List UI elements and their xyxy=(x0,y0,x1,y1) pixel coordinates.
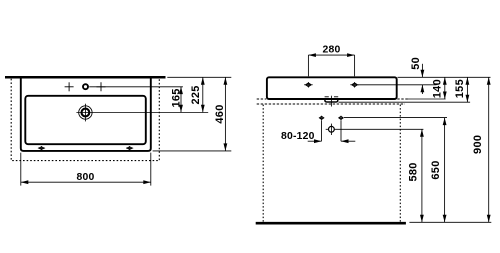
extension line basin bottom right xyxy=(406,98,445,100)
extension line basin front xyxy=(153,150,232,152)
extension line wall level xyxy=(167,76,231,78)
counter top hidden edge left xyxy=(257,98,267,100)
svg-text:280: 280 xyxy=(323,44,341,55)
svg-text:80-120: 80-120 xyxy=(281,131,315,142)
svg-text:165: 165 xyxy=(171,88,183,107)
dashed outline (installation extent) xyxy=(11,79,159,161)
basin body xyxy=(267,77,397,99)
panel edge right (dotted) xyxy=(399,105,401,222)
extension lines for 280 xyxy=(307,55,309,76)
supply hole left xyxy=(320,116,324,120)
hidden drain edges xyxy=(325,96,329,98)
svg-text:650: 650 xyxy=(430,160,442,179)
extension line tap-hole row xyxy=(89,86,183,88)
basin outer edge xyxy=(21,78,151,151)
extension line tap hole centre xyxy=(76,112,208,114)
fixing hole bottom right xyxy=(126,146,133,150)
svg-text:140: 140 xyxy=(431,79,443,98)
drain trap xyxy=(326,124,335,135)
extension line drain row xyxy=(334,128,423,130)
svg-text:800: 800 xyxy=(77,172,95,183)
basin bowl xyxy=(25,96,146,144)
supply hole right xyxy=(339,116,343,120)
dimension 225 xyxy=(190,77,205,112)
extension line flange bottom right xyxy=(339,101,471,103)
dimension 280 xyxy=(308,44,354,57)
tap hole xyxy=(79,104,92,122)
panel edge left (dotted) xyxy=(262,105,264,222)
extension line supply row xyxy=(344,117,447,119)
svg-text:155: 155 xyxy=(454,79,466,98)
drain flange xyxy=(325,99,338,102)
dimension 650 xyxy=(430,118,446,223)
dimension 140 xyxy=(431,77,446,99)
dimension 580 xyxy=(408,129,424,222)
dimension 155 xyxy=(454,77,469,102)
counter top hidden edge right xyxy=(397,98,409,100)
floor extension line xyxy=(409,221,491,223)
tap position cross right xyxy=(97,82,106,91)
dimension 50 xyxy=(410,57,424,94)
extension lines 80-120 xyxy=(321,120,323,141)
fixing hole bottom left xyxy=(38,146,45,150)
fixing hole left xyxy=(304,82,313,88)
svg-text:50: 50 xyxy=(410,57,422,70)
tap position cross left xyxy=(65,82,74,91)
dimension 80-120 xyxy=(281,131,355,143)
drain centreline xyxy=(330,96,332,107)
fixing hole right xyxy=(350,82,359,88)
floor line xyxy=(256,222,406,225)
svg-text:580: 580 xyxy=(408,162,420,181)
svg-text:225: 225 xyxy=(190,85,202,104)
dimension 165 xyxy=(171,87,183,113)
counter bottom hidden edge xyxy=(257,103,405,105)
svg-text:460: 460 xyxy=(214,104,226,123)
dimension 800 xyxy=(21,172,151,184)
dimension 900 xyxy=(472,77,490,222)
dimension 460 xyxy=(214,77,227,151)
svg-text:900: 900 xyxy=(472,135,484,154)
wall line xyxy=(5,76,166,79)
extension line basin top right xyxy=(398,76,491,78)
extension lines for 800 xyxy=(20,153,22,186)
overflow ring xyxy=(83,84,88,89)
extension line fixing holes xyxy=(358,84,437,86)
